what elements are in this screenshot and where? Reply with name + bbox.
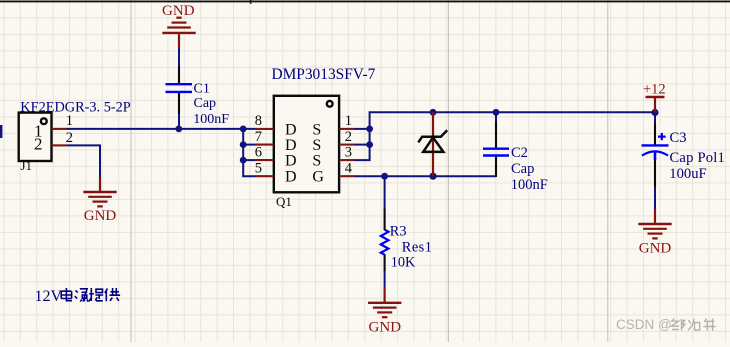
R3 pin lower	[384, 254, 386, 271]
GND right stem	[654, 209, 656, 224]
svg-text:S: S	[312, 137, 321, 154]
svg-text:C2: C2	[511, 145, 528, 161]
wire GND to C1 upper	[178, 47, 180, 68]
C1 pin upper	[178, 66, 180, 83]
svg-text:Q1: Q1	[276, 194, 292, 209]
svg-text:D: D	[285, 121, 297, 138]
wire J1.2 to GND	[67, 145, 101, 177]
GND left bar2	[88, 196, 112, 198]
junction zener bottom	[429, 173, 436, 180]
wire net3 Q1.4 bottom rail	[354, 175, 496, 177]
svg-text:D: D	[285, 153, 297, 170]
svg-text:C3: C3	[670, 130, 687, 146]
C3 plus sign	[658, 133, 666, 140]
Q1 body	[274, 96, 339, 193]
wire net2 stub pin1	[354, 128, 370, 130]
GND right bar4	[652, 237, 657, 239]
svg-text:100nF: 100nF	[193, 112, 229, 127]
svg-text:GND: GND	[84, 208, 117, 224]
svg-text:3: 3	[345, 144, 352, 160]
Q1 pin 3 stub	[339, 159, 354, 161]
seam line left	[130, 0, 132, 342]
svg-text:8: 8	[255, 113, 262, 129]
Q1 pin 1 stub	[339, 128, 354, 130]
svg-text:Cap Pol1: Cap Pol1	[670, 150, 726, 166]
GND R3 stem	[384, 287, 386, 302]
svg-text:2: 2	[34, 135, 43, 154]
svg-text:1: 1	[345, 113, 352, 129]
junction right pin2	[366, 141, 373, 148]
GND right bar3	[648, 233, 663, 235]
svg-text:CSDN @: CSDN @	[616, 317, 672, 332]
svg-text:2: 2	[345, 129, 352, 145]
GND left bar3	[93, 201, 108, 203]
Q1 pin 5 stub	[255, 175, 273, 177]
svg-text:100nF: 100nF	[511, 177, 548, 193]
wire +12 to C3	[654, 112, 656, 124]
connector J1 body	[19, 113, 52, 161]
svg-text:GND: GND	[639, 240, 672, 256]
svg-text:D: D	[285, 137, 297, 154]
J1 pin 1 stub	[52, 128, 67, 130]
GND top bar1	[162, 32, 195, 34]
zener cathode bar	[418, 130, 447, 142]
svg-text:GND: GND	[369, 319, 402, 335]
sheet border top	[0, 1, 730, 3]
stray wire fragment at left edge	[0, 125, 2, 138]
R3 zigzag body	[381, 230, 389, 255]
svg-text:+12: +12	[643, 82, 666, 98]
C2 pin upper	[495, 122, 497, 148]
C1 pin lower	[178, 93, 180, 114]
svg-text:S: S	[312, 153, 321, 170]
C3 plate top	[642, 144, 669, 146]
junction C1/net1	[175, 125, 182, 132]
hanzi dian	[61, 288, 72, 301]
wire net3 to R3	[384, 176, 386, 209]
svg-text:KF2EDGR-3. 5-2P: KF2EDGR-3. 5-2P	[20, 99, 130, 115]
watermark hanzi sheng	[703, 319, 715, 332]
C1 plate top	[166, 83, 193, 85]
zener triangle	[423, 137, 443, 152]
junction bus row7	[240, 141, 247, 148]
Q1 pin 2 stub	[339, 144, 354, 146]
wire R3 to GND	[384, 270, 386, 288]
GND R3 bar3	[377, 311, 392, 313]
zener pin through	[432, 112, 434, 176]
svg-text:GND: GND	[162, 3, 195, 19]
J1 pin 2 stub	[52, 144, 67, 146]
svg-text:R3: R3	[390, 224, 407, 240]
svg-text:5: 5	[255, 160, 262, 176]
svg-text:12V: 12V	[35, 288, 63, 305]
wire C3 to GND	[654, 186, 656, 209]
watermark hanzi xu	[688, 319, 700, 331]
svg-text:Res1: Res1	[402, 240, 433, 256]
svg-text:2: 2	[66, 130, 73, 146]
R3 pin upper	[384, 209, 386, 231]
Q1 pin 6 stub	[255, 159, 273, 161]
svg-text:6: 6	[255, 144, 262, 160]
junction bus row6	[240, 157, 247, 164]
C2 plate top	[483, 147, 509, 149]
GND top bar2	[167, 26, 191, 28]
sheet zone tick	[250, 0, 252, 4]
wire net1 vertical bus left of Q1	[243, 129, 255, 176]
C3 pin lower	[654, 158, 656, 187]
junction R3 top	[381, 173, 388, 180]
GND top bar4	[176, 17, 181, 19]
svg-text:Cap: Cap	[194, 96, 217, 111]
junction bus row8	[240, 125, 247, 132]
svg-text:100uF: 100uF	[669, 166, 706, 182]
svg-text:Cap: Cap	[511, 161, 534, 177]
svg-text:DMP3013SFV-7: DMP3013SFV-7	[272, 66, 376, 83]
wire net1 J1.1 to Q1.8	[67, 128, 256, 130]
GND top bar3	[172, 22, 187, 24]
svg-text:D: D	[285, 169, 297, 186]
svg-text:J1: J1	[21, 158, 33, 173]
GND top stem	[178, 33, 180, 48]
svg-text:1: 1	[66, 113, 73, 129]
seam line right	[607, 0, 609, 342]
Q1 polarity donut	[327, 101, 333, 107]
Q1 pin 7 stub	[255, 144, 273, 146]
wire net1 stub row6	[243, 159, 255, 161]
GND R3 bar2	[373, 307, 397, 309]
GND right bar2	[643, 228, 667, 230]
C2 plate bottom	[483, 154, 509, 156]
junction +12	[651, 109, 658, 116]
svg-text:C1: C1	[194, 81, 210, 96]
svg-text:7: 7	[255, 129, 262, 145]
svg-text:G: G	[312, 169, 324, 186]
GND left bar4	[97, 205, 102, 207]
watermark hanzi zou	[671, 319, 685, 331]
junction C2 top	[493, 109, 500, 116]
seam line middle	[447, 0, 449, 342]
hanzi ti	[89, 288, 103, 301]
+12 bar	[646, 96, 665, 98]
connector J1 polarity donut	[41, 118, 47, 124]
GND left stem	[99, 177, 101, 192]
svg-text:4: 4	[345, 160, 353, 176]
+12 stem	[654, 97, 656, 112]
Q1 pin 8 stub	[255, 128, 273, 130]
svg-text:10K: 10K	[391, 255, 416, 271]
wire net1 stub row7	[243, 144, 255, 146]
GND left bar1	[83, 191, 116, 193]
C1 plate bottom	[166, 91, 193, 93]
hanzi yuan	[75, 289, 89, 302]
junction zener top	[430, 109, 437, 116]
C2 pin lower	[495, 157, 497, 178]
wire net2 stub pin2	[354, 144, 370, 146]
C3 curved plate	[642, 151, 668, 155]
junction right pin1	[366, 125, 373, 132]
C3 pin upper	[654, 124, 656, 145]
svg-text:S: S	[312, 121, 321, 138]
GND R3 bar1	[368, 302, 401, 304]
GND right bar1	[638, 223, 671, 225]
wire net2 Q1 right vertical	[354, 112, 655, 160]
C3 plate stem	[654, 152, 657, 161]
wire net2 to C2	[495, 112, 497, 122]
Q1 pin 4 stub	[339, 175, 354, 177]
GND R3 bar4	[382, 316, 387, 318]
wire C1 lower to net1	[178, 113, 180, 130]
hanzi gong	[105, 288, 120, 301]
